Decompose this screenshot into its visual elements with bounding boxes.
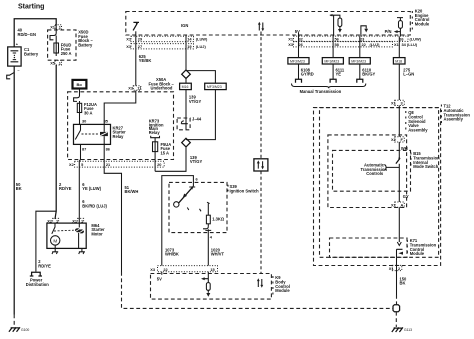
wire 150 BK xyxy=(396,257,398,295)
svg-text:Battery: Battery xyxy=(78,43,93,48)
label K20 Engine Control Module xyxy=(411,11,413,30)
wire GY out of mode switch xyxy=(398,164,400,202)
module K71 dashed box xyxy=(330,238,408,257)
relay KR27 Starter Relay xyxy=(74,124,111,144)
svg-text:Controls: Controls xyxy=(366,171,384,176)
svg-text:34 (LLU): 34 (LLU) xyxy=(402,42,418,47)
wire IGN through pins 14/19 to splice xyxy=(185,35,187,70)
svg-text:Ignition Switch: Ignition Switch xyxy=(230,188,260,193)
option box MF3/M23 (3) xyxy=(349,58,370,64)
svg-text:(LUW): (LUW) xyxy=(410,36,422,41)
svg-text:30 A: 30 A xyxy=(84,110,93,115)
wire stub pin 22 inside K9 xyxy=(161,272,163,275)
assembly inner dashed box xyxy=(320,108,439,258)
label T12 Automatic Transmission Assembly xyxy=(440,105,442,124)
svg-text:MF3/M23: MF3/M23 xyxy=(351,60,366,64)
svg-text:250 A: 250 A xyxy=(61,51,72,56)
svg-text:GY: GY xyxy=(403,194,409,199)
wire 1020 WH/VT to K9 pin 15 xyxy=(207,233,209,266)
wire serial data (dashed) K20 to K9 xyxy=(260,32,262,159)
connector row X1 (left, pins 29/14) xyxy=(131,36,194,41)
resistor 1.3K xyxy=(206,204,210,227)
option box MF3/M23 (1) xyxy=(288,58,309,64)
svg-text:Mode Switch: Mode Switch xyxy=(413,164,439,169)
node G113 splice (octagon) xyxy=(393,305,400,312)
starter motor armature M xyxy=(51,236,60,245)
svg-text:YE (LUW): YE (LUW) xyxy=(82,186,101,191)
svg-text:MF3/M23: MF3/M23 xyxy=(207,85,222,89)
fuse F5UA 15 A xyxy=(153,142,158,152)
relay KR27 contact blade xyxy=(75,124,80,139)
switch B15 dashed box xyxy=(333,150,411,191)
svg-text:WH/VT: WH/VT xyxy=(211,252,225,257)
svg-text:Relay: Relay xyxy=(149,130,161,135)
wire 6110 BK/GY to ground xyxy=(359,64,361,79)
dashed wire node to ground xyxy=(395,312,397,327)
driver symbol col C: corner with down arrow xyxy=(361,26,368,37)
svg-text:(LUJ): (LUJ) xyxy=(196,44,207,49)
wire diamond to M16 xyxy=(185,79,187,84)
svg-text:J–44: J–44 xyxy=(192,116,202,121)
ground terminal (6108) xyxy=(296,79,302,83)
wire 625 YE/BK ignition to X50A xyxy=(135,36,137,85)
assembly T12 outer dashed box xyxy=(314,108,441,266)
svg-text:A: A xyxy=(401,202,404,207)
svg-text:BK: BK xyxy=(16,186,22,191)
svg-text:Manual Transmission: Manual Transmission xyxy=(300,89,342,94)
inline connector J-44 xyxy=(177,116,202,130)
wire stub below blade xyxy=(135,31,137,36)
svg-text:Battery: Battery xyxy=(24,52,39,57)
svg-text:Starting: Starting xyxy=(18,3,44,10)
svg-text:RD/D–GN: RD/D–GN xyxy=(18,32,36,37)
svg-text:X2: X2 xyxy=(69,162,75,167)
connector pin X1 3 (T12 top) xyxy=(395,100,405,105)
option box MF3/M23 (2) xyxy=(322,58,343,64)
svg-text:20: 20 xyxy=(157,162,161,167)
battery C1 xyxy=(8,42,21,73)
mode switch blade xyxy=(396,158,400,163)
svg-text:VT/GY: VT/GY xyxy=(189,99,202,104)
svg-text:RD/YE: RD/YE xyxy=(59,186,72,191)
blade arrowhead xyxy=(183,194,187,199)
K9 input: arrow, resistor, ground arrow xyxy=(201,272,210,297)
svg-text:87: 87 xyxy=(82,146,86,151)
wire 139 VT/GY to X50A pin 20 (U-turn) xyxy=(155,147,186,171)
connector pin X1 2 (K71 out) xyxy=(392,265,402,270)
wire F5UA down through pin 20 xyxy=(154,152,156,172)
svg-text:Bo: Bo xyxy=(77,82,83,87)
svg-text:Distribution: Distribution xyxy=(26,282,49,287)
svg-text:Module: Module xyxy=(415,21,430,26)
wire Bo feed down to relay 30 xyxy=(79,89,81,125)
svg-text:M18: M18 xyxy=(395,60,402,64)
svg-text:27: 27 xyxy=(138,44,142,49)
splice diamond (lower) xyxy=(182,138,191,147)
ground terminal (6111) xyxy=(330,79,336,83)
svg-text:X1: X1 xyxy=(126,44,132,49)
svg-text:Assembly: Assembly xyxy=(444,117,464,122)
wire 51 dashed continuation to G113 bus xyxy=(122,272,393,308)
label B15 Transmission Internal Mode Switch xyxy=(410,153,412,166)
dashed wire to G113 node xyxy=(396,295,398,304)
svg-text:X2: X2 xyxy=(391,137,397,142)
terminal hook inside X50D xyxy=(50,25,56,40)
svg-text:M: M xyxy=(53,238,57,243)
wire relay 86 to pin 21 and jog to 51 BK/WH xyxy=(104,144,121,272)
connector rows right of K20 xyxy=(294,36,409,41)
label K9 Body Control Module xyxy=(272,276,274,295)
svg-text:Underhood: Underhood xyxy=(151,86,173,91)
svg-text:BK/RD (LUJ): BK/RD (LUJ) xyxy=(82,204,107,209)
relay KR27 coil xyxy=(100,124,108,144)
terminal hook below Bo xyxy=(74,96,80,102)
wire col B down to MF3/M23 xyxy=(332,36,334,57)
wire 625 inside block to relay 85 xyxy=(104,91,136,125)
wire branch to power distribution xyxy=(36,211,56,271)
wire 275 L-GN from M18 down xyxy=(398,64,400,100)
svg-text:5V: 5V xyxy=(295,29,300,34)
svg-text:YE/BK: YE/BK xyxy=(139,58,152,63)
svg-text:X1: X1 xyxy=(288,36,294,41)
fuse F12UA 30 A xyxy=(77,103,81,112)
svg-text:30: 30 xyxy=(82,119,86,124)
option box M16 xyxy=(180,83,192,89)
option box M18 xyxy=(393,58,405,64)
svg-text:X1: X1 xyxy=(394,42,400,47)
wire 275 into T12 xyxy=(398,106,400,137)
serial data arrows (K9) xyxy=(257,278,263,287)
P/N pull-up symbol col D xyxy=(394,18,403,37)
starter solenoid coil xyxy=(75,228,84,233)
switch blade with key handle xyxy=(179,186,195,203)
svg-text:WH/BK: WH/BK xyxy=(165,252,179,257)
svg-text:MF3/M23: MF3/M23 xyxy=(290,60,305,64)
module K20 dashed box (top) xyxy=(126,12,411,36)
svg-text:Motor: Motor xyxy=(91,231,103,236)
wire 2 RD/YE battery feed to starter xyxy=(55,65,56,219)
wire MF3/M23 branch down and left xyxy=(186,90,215,140)
svg-text:X3: X3 xyxy=(288,42,294,47)
svg-text:X3: X3 xyxy=(150,267,156,272)
wire 1073 feed over box to pin 6 xyxy=(162,176,194,232)
svg-text:M16: M16 xyxy=(182,85,189,89)
svg-text:15 A: 15 A xyxy=(161,150,170,155)
brace Manual Transmission xyxy=(292,84,366,89)
wire WH to mode switch xyxy=(398,142,400,158)
svg-text:Relay: Relay xyxy=(113,134,125,139)
svg-text:G113: G113 xyxy=(404,328,412,332)
valve body dashed box xyxy=(328,135,407,208)
svg-text:BK/GY: BK/GY xyxy=(362,72,375,77)
wire 6 YE (LUW) / 6 BK/RD (LUJ) from X50A X2-5 to starter X1-1 xyxy=(78,168,80,220)
terminal hook pin 4 xyxy=(203,227,211,233)
svg-text:X1: X1 xyxy=(389,266,395,271)
wire dashed to G100 xyxy=(13,315,15,328)
wire solenoid input from X1 1 xyxy=(78,219,81,248)
svg-text:(LUW): (LUW) xyxy=(196,37,208,42)
wire X2 A down into K71 xyxy=(398,207,400,242)
ground G113 xyxy=(392,327,403,332)
connector row X1 (left, pins 27/19) xyxy=(131,44,194,49)
connector row X3 (K9 top) xyxy=(158,266,218,272)
svg-text:X1: X1 xyxy=(126,37,132,42)
connector pin X2 A xyxy=(395,202,405,207)
svg-text:MF3/M23: MF3/M23 xyxy=(324,60,339,64)
wire battery positive to X50D xyxy=(14,19,56,47)
wire 139 VT/GY M16 to J-44 xyxy=(185,90,187,118)
ground terminal (6110) xyxy=(357,79,363,83)
K71 input arrow terminal xyxy=(397,242,401,246)
driver symbol col B: left arrow, pull resistor, down arrow xyxy=(330,14,342,37)
wire 6111 YE to ground xyxy=(332,64,334,79)
ground starter motor (left) xyxy=(52,245,58,254)
starter motor M64 xyxy=(47,223,86,248)
inline connector box with data arrows xyxy=(254,159,268,171)
svg-text:BK/WH: BK/WH xyxy=(125,189,139,194)
starter contact blade xyxy=(52,223,55,234)
wire 1073 WH/BK to K9 pin 22 xyxy=(161,232,163,266)
dashed actuator link xyxy=(54,229,74,232)
svg-text:Module: Module xyxy=(275,288,290,293)
svg-text:GY/RD: GY/RD xyxy=(301,72,314,77)
svg-text:(LUJ): (LUJ) xyxy=(370,42,381,47)
svg-text:IGN: IGN xyxy=(181,23,188,28)
svg-text:Module: Module xyxy=(410,251,425,256)
svg-text:5V: 5V xyxy=(157,276,162,281)
connector pin X2 F xyxy=(395,137,405,142)
actuator link Automatic Transmission Controls xyxy=(384,165,399,170)
wire col A (5V) down to MF3/M23 xyxy=(298,33,300,58)
serial data arrows (top box) xyxy=(258,22,264,31)
svg-text:L–GN: L–GN xyxy=(403,72,414,77)
wire branch to MF3/M23 option xyxy=(186,71,215,84)
svg-text:RD/YE: RD/YE xyxy=(38,263,51,268)
fuse block X50A dashed box xyxy=(68,92,174,160)
svg-text:BK: BK xyxy=(400,281,406,286)
svg-text:YE: YE xyxy=(336,72,342,77)
off-page connector Power Distribution xyxy=(30,272,42,276)
svg-text:1.3KΩ: 1.3KΩ xyxy=(212,217,225,222)
wire 6108 GY/RD to ground xyxy=(298,64,300,79)
svg-text:X2: X2 xyxy=(391,202,397,207)
ignition switch blade symbol (in top box) xyxy=(133,22,139,30)
svg-text:G100: G100 xyxy=(21,328,29,332)
module K9 Body Control Module dashed box xyxy=(151,274,272,300)
fuse F6UD 250 A xyxy=(54,36,59,57)
label S39 Ignition Switch xyxy=(227,185,229,192)
splice diamond (upper) xyxy=(182,70,191,79)
option box MF3/M23 (ign) xyxy=(205,83,227,89)
position contacts I II xyxy=(187,202,209,211)
wire col D (P/N) down to M18 xyxy=(398,36,400,57)
switch contact circle xyxy=(174,202,179,207)
svg-text:Assembly: Assembly xyxy=(408,127,428,132)
label K71 Transmission Control Module xyxy=(406,240,408,253)
wire relay 87 output to pin X2 5 xyxy=(79,144,80,167)
fuse block X50D dashed box xyxy=(48,30,76,60)
wire col C down to MF3/M23 xyxy=(359,36,361,57)
switch S39 dashed box xyxy=(169,182,227,232)
ground starter solenoid (right) xyxy=(79,248,85,254)
label Q8 Control Solenoid Valve Assembly xyxy=(405,111,407,130)
wire battery negative (50 BK) xyxy=(13,66,15,314)
feed box Bo xyxy=(73,80,87,89)
ground G100 xyxy=(9,327,20,332)
svg-text:X1: X1 xyxy=(391,101,397,106)
terminal hook on battery negative xyxy=(7,72,15,78)
svg-text:VT/GY: VT/GY xyxy=(190,159,203,164)
svg-text:P/N: P/N xyxy=(385,29,392,34)
dashed relay link xyxy=(82,133,100,135)
